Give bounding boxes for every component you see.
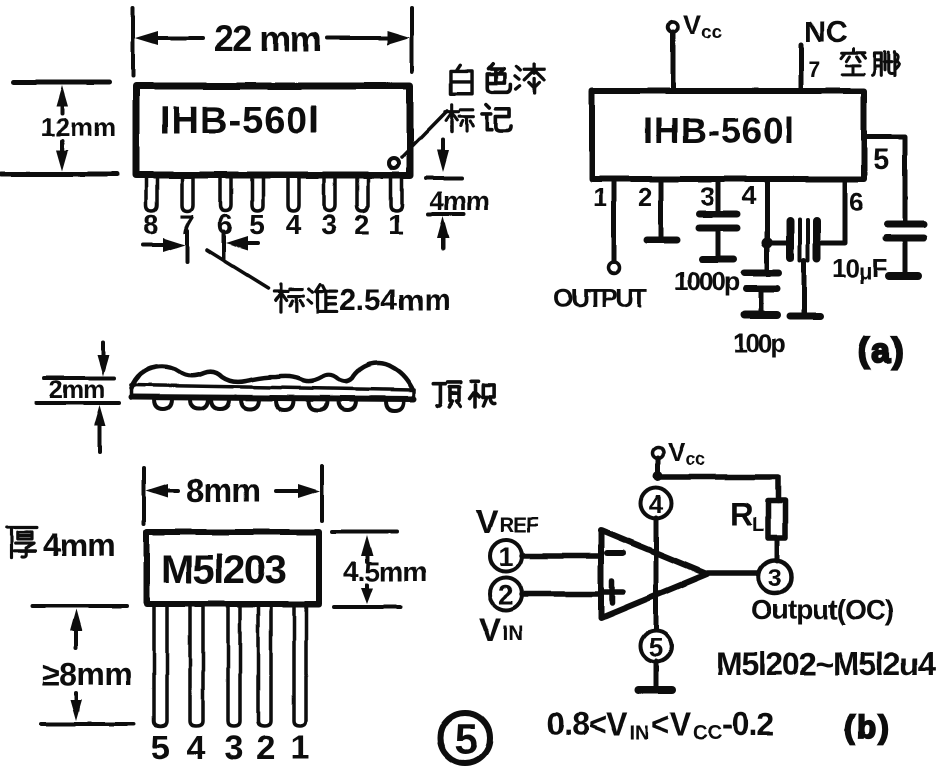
minus input sign xyxy=(607,550,623,556)
svg-text:1: 1 xyxy=(291,729,310,767)
M51203 pin numbers 5 4 3 2 1 xyxy=(151,729,310,767)
svg-text:-0.2: -0.2 xyxy=(722,706,773,742)
label 标记 (mark) xyxy=(445,105,511,133)
svg-text:7: 7 xyxy=(808,57,820,82)
dimension >=8mm top bar xyxy=(33,604,127,608)
ground (C3) xyxy=(889,272,918,280)
svg-text:3: 3 xyxy=(225,729,244,767)
svg-text:(b): (b) xyxy=(844,709,891,745)
pin 3 wire xyxy=(700,181,718,211)
svg-text:Output(OC): Output(OC) xyxy=(751,594,893,625)
dimension 8mm left tick xyxy=(142,468,146,524)
label 10uF xyxy=(832,253,888,284)
dimension 22mm right tick xyxy=(410,8,414,72)
wire through opamp vertical xyxy=(654,518,659,630)
junction node xyxy=(653,471,663,481)
svg-text:2: 2 xyxy=(257,729,276,767)
pin bumps under side view xyxy=(154,399,404,411)
wire NC pin 7 xyxy=(801,45,820,89)
wire RL to pin3 xyxy=(775,538,780,561)
dimension 12mm vertical arrows xyxy=(56,85,68,171)
ground (pin 2) xyxy=(647,237,677,244)
svg-text:cc: cc xyxy=(701,22,723,43)
svg-text:5: 5 xyxy=(649,632,663,662)
IC package body IHB-5601 xyxy=(136,86,410,175)
ground (C1) xyxy=(702,256,734,263)
label (a) xyxy=(858,332,906,370)
package pins 8..1 (hollow U shapes) xyxy=(146,177,402,211)
label M51203 xyxy=(161,548,286,592)
dimension 8mm right tick xyxy=(320,466,324,521)
label 22 mm xyxy=(214,18,321,59)
svg-text:M5l203: M5l203 xyxy=(161,548,286,592)
svg-text:12mm: 12mm xyxy=(41,112,116,142)
svg-text:1: 1 xyxy=(498,542,513,572)
dimension >=8mm bottom bar xyxy=(41,722,134,726)
ground (op-amp) xyxy=(639,686,672,694)
svg-text:4: 4 xyxy=(285,209,301,240)
pin 3 circled xyxy=(759,561,792,594)
svg-text:4.5mm: 4.5mm xyxy=(343,556,427,587)
svg-text:5: 5 xyxy=(873,143,890,176)
wire pin5 to ground xyxy=(654,661,659,687)
crystal X1 xyxy=(790,220,817,260)
label 1000p xyxy=(674,266,739,296)
IC U1 IHB-5601 xyxy=(592,91,864,179)
svg-text:5: 5 xyxy=(151,729,170,767)
wire Vcc down xyxy=(656,458,661,476)
dimension 8mm arrows xyxy=(146,484,320,498)
svg-text:100p: 100p xyxy=(733,328,785,358)
svg-text:1: 1 xyxy=(388,209,404,240)
svg-text:4: 4 xyxy=(649,489,664,519)
ground (crystal) xyxy=(790,313,820,320)
svg-text:4: 4 xyxy=(187,729,206,767)
label VIN xyxy=(479,611,523,648)
dimension 4mm bottom bar xyxy=(428,212,464,216)
svg-text:<V: <V xyxy=(651,706,692,742)
wire crystal to ground xyxy=(802,260,807,313)
svg-text:5: 5 xyxy=(454,715,477,762)
ground (C2) xyxy=(745,311,777,319)
svg-text:IHB-560l: IHB-560l xyxy=(160,100,320,142)
label 空脚 (unused pin) xyxy=(841,49,899,76)
dimension 2mm top arrow xyxy=(97,342,109,376)
dimension 22mm arrow line right xyxy=(327,31,410,45)
label 标准2.54mm xyxy=(274,284,451,317)
pin 4 circled xyxy=(641,488,672,520)
label 白色漆 (white paint) xyxy=(451,63,545,93)
svg-text:3: 3 xyxy=(321,209,337,240)
leader line to white-mark label xyxy=(402,111,447,157)
svg-text:8: 8 xyxy=(143,209,159,240)
pitch arrow into pin6 tick xyxy=(224,232,258,260)
svg-text:L: L xyxy=(752,514,764,536)
svg-text:NC: NC xyxy=(804,16,847,49)
pin 1 circled xyxy=(490,540,522,572)
svg-text:F: F xyxy=(872,253,888,283)
wire C3 to ground xyxy=(903,242,908,272)
dimension 22mm left tick xyxy=(131,8,135,76)
svg-text:0.8<V: 0.8<V xyxy=(547,706,628,742)
capacitor C2 100p xyxy=(744,273,779,289)
label 4.5mm xyxy=(343,556,427,587)
wire C1 to ground xyxy=(716,231,721,256)
pin 5 wire xyxy=(866,137,905,221)
plus input sign xyxy=(601,581,623,603)
label RL xyxy=(730,496,764,536)
wire node to C2 xyxy=(765,243,770,270)
label 顶视 (top view) xyxy=(434,382,495,407)
svg-text:(a): (a) xyxy=(858,332,906,370)
svg-text:V: V xyxy=(479,611,501,648)
dimension 2mm bottom bar xyxy=(36,401,119,405)
Vcc terminal xyxy=(668,10,723,43)
svg-text:4mm: 4mm xyxy=(43,527,115,563)
dimension 2mm bottom arrow xyxy=(94,405,106,452)
dimension >=8mm down arrow xyxy=(70,693,82,721)
dimension 4.5mm up arrow xyxy=(361,535,373,562)
package body M51203 xyxy=(147,532,319,604)
junction node pin4 xyxy=(762,238,773,249)
pin 2 wire xyxy=(638,182,661,238)
pin 5 circled xyxy=(641,631,672,663)
pitch arrow into pin7 tick xyxy=(143,231,187,262)
white paint mark (small circle) xyxy=(389,158,399,168)
wire pin2 to opamp xyxy=(522,591,601,597)
svg-text:V: V xyxy=(476,503,498,540)
svg-text:3: 3 xyxy=(700,181,714,211)
svg-text:1: 1 xyxy=(593,182,607,212)
svg-text:1000p: 1000p xyxy=(674,266,739,296)
pin 4 wire xyxy=(742,180,767,243)
Vcc terminal xyxy=(653,437,706,469)
label 8mm xyxy=(186,472,260,509)
dimension 4mm down arrow xyxy=(437,140,449,172)
svg-text:2: 2 xyxy=(354,209,370,240)
label M51202~M51204 xyxy=(716,646,936,682)
svg-text:IN: IN xyxy=(502,622,523,645)
svg-text:6: 6 xyxy=(849,187,863,217)
label IHB-5601 (package) xyxy=(160,100,320,142)
svg-text:R: R xyxy=(730,496,753,532)
wire Vcc to IC xyxy=(671,32,676,89)
svg-text:4: 4 xyxy=(742,180,757,210)
svg-text:2.54mm: 2.54mm xyxy=(339,284,451,317)
label 4mm xyxy=(429,186,489,216)
wire C2 to ground xyxy=(759,292,764,311)
svg-text:IN: IN xyxy=(629,722,649,744)
svg-text:REF: REF xyxy=(499,514,539,537)
wire node to RL xyxy=(658,477,778,501)
svg-text:2mm: 2mm xyxy=(49,376,104,404)
wire node to crystal xyxy=(767,241,786,246)
label 0.8 < VIN < VCC - 0.2 xyxy=(547,706,773,744)
wire crystal to pin 6 xyxy=(821,182,863,243)
svg-text:V: V xyxy=(683,10,701,40)
dimension 12mm bottom bar xyxy=(1,172,117,177)
wire pin1 to opamp xyxy=(522,553,601,559)
svg-text:10: 10 xyxy=(832,253,859,283)
dimension 2mm top bar xyxy=(44,376,114,380)
capacitor C1 1000p xyxy=(699,214,737,228)
svg-text:5: 5 xyxy=(249,209,265,240)
label 12mm xyxy=(41,112,116,142)
svg-text:2: 2 xyxy=(498,580,513,610)
pin 2 circled xyxy=(490,578,522,610)
svg-text:22 mm: 22 mm xyxy=(214,18,321,59)
svg-text:8mm: 8mm xyxy=(186,472,260,509)
label OUTPUT xyxy=(553,283,648,313)
label Output(OC) xyxy=(751,594,893,625)
svg-text:IHB-560l: IHB-560l xyxy=(643,110,795,151)
dimension 22mm arrow line left xyxy=(135,31,203,45)
resistor RL xyxy=(768,501,785,538)
svg-text:2: 2 xyxy=(638,182,652,212)
svg-text:OUTPUT: OUTPUT xyxy=(553,283,648,313)
dimension 12mm top bar xyxy=(14,80,110,85)
pin 1 wire xyxy=(593,182,614,262)
label 2mm xyxy=(49,376,104,404)
dimension 4.5mm bottom bar xyxy=(334,605,400,609)
package side view body xyxy=(131,363,414,399)
svg-text:4mm: 4mm xyxy=(429,186,489,216)
OUTPUT terminal xyxy=(609,263,620,274)
leader line for pitch label xyxy=(207,250,268,288)
dimension 4mm top bar xyxy=(426,176,462,180)
dimension 4mm up arrow xyxy=(437,216,449,248)
svg-text:CC: CC xyxy=(693,722,722,744)
dimension 4.5mm top bar xyxy=(332,530,397,534)
figure number circled 5 xyxy=(440,713,490,763)
label (b) xyxy=(844,709,891,745)
svg-text:V: V xyxy=(668,437,686,467)
label 100p xyxy=(733,328,785,358)
pin numbers 8 7 6 5 4 3 2 1 xyxy=(143,209,404,240)
M51203 pins 5..1 (long hollow) xyxy=(154,607,306,726)
svg-text:≥8mm: ≥8mm xyxy=(42,656,132,692)
label VREF xyxy=(476,503,539,540)
dimension >=8mm up arrow xyxy=(70,609,82,648)
svg-text:M5l202~M5l2u4: M5l202~M5l2u4 xyxy=(716,646,936,682)
label 厚4mm (thickness) xyxy=(7,527,115,563)
svg-text:μ: μ xyxy=(859,259,872,284)
capacitor C3 xyxy=(886,224,924,238)
label IHB-5601 xyxy=(643,110,795,151)
svg-text:cc: cc xyxy=(685,449,705,469)
label >=8mm xyxy=(42,656,132,692)
dimension 4.5mm down arrow xyxy=(361,585,373,604)
svg-text:3: 3 xyxy=(768,565,781,592)
label NC xyxy=(804,16,847,49)
output wire xyxy=(707,570,758,576)
op-amp U2 triangle xyxy=(601,530,707,618)
